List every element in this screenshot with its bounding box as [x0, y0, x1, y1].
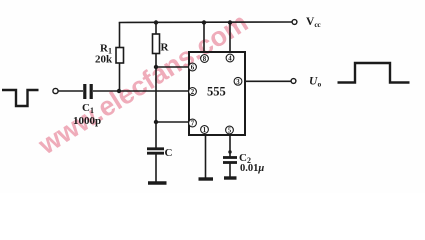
svg-text:6: 6: [191, 65, 195, 72]
svg-text:o: o: [318, 80, 322, 89]
ground (C): [148, 181, 167, 184]
junction dot R/pin7: [154, 120, 158, 124]
svg-text:20k: 20k: [95, 54, 113, 66]
capacitor C lower lead: [155, 153, 157, 182]
node A junction dot (C1/R1/pin2): [117, 89, 121, 93]
Vcc rail wire: [119, 21, 292, 24]
pin 1: [201, 126, 209, 134]
watermark www.elecfans.com: [32, 7, 253, 160]
svg-text:1000p: 1000p: [73, 115, 101, 127]
pin 8: [201, 55, 209, 63]
input trigger waveform (negative pulse): [2, 90, 39, 106]
svg-text:8: 8: [203, 56, 207, 63]
op-amp / 555 IC U1 box: [189, 52, 245, 135]
resistor R upper lead: [155, 23, 157, 35]
output terminal: [291, 79, 296, 84]
wire C1 to node A: [93, 90, 119, 92]
resistor R1 leads: [119, 63, 121, 91]
wire terminal to C1: [58, 90, 83, 92]
svg-text:R: R: [161, 42, 170, 54]
svg-text:4: 4: [228, 56, 232, 63]
output waveform (positive pulse): [338, 63, 410, 83]
svg-text:3: 3: [236, 79, 240, 86]
svg-text:1: 1: [203, 127, 207, 134]
svg-text:C: C: [165, 147, 173, 159]
input terminal: [53, 88, 58, 93]
junction dot rail/R: [154, 20, 158, 24]
junction dot R/pin6: [154, 65, 158, 69]
wire rail to pin 4: [229, 23, 231, 53]
junction blob on C2 lead: [228, 150, 231, 153]
ground (C2): [224, 176, 237, 179]
resistor R body: [153, 34, 160, 54]
svg-text:2: 2: [191, 89, 195, 96]
wire pin 5 to C2: [229, 135, 231, 157]
pin 6: [189, 63, 197, 71]
Vcc terminal: [292, 20, 297, 25]
pin 7: [189, 119, 197, 127]
junction dot rail/pin8: [202, 20, 206, 24]
wire to pin 7: [156, 121, 189, 123]
svg-text:0.01μ: 0.01μ: [240, 163, 264, 174]
svg-text:Vcc: Vcc: [306, 16, 321, 29]
capacitor C2 plates: [223, 158, 237, 163]
wire pin 3 to output terminal: [245, 80, 291, 82]
resistor R1 body: [116, 48, 124, 64]
ground (pin 1): [199, 177, 214, 180]
svg-text:5: 5: [228, 128, 232, 135]
pin 4: [226, 54, 234, 62]
capacitor C plates: [147, 149, 164, 153]
wire node A to pin 2: [119, 90, 189, 92]
svg-text:7: 7: [191, 121, 195, 128]
capacitor C2 lower lead: [229, 163, 231, 178]
pin 5: [226, 126, 234, 134]
junction dot rail/pin4: [228, 20, 232, 24]
resistor R lower lead down to capacitor C: [155, 54, 157, 148]
capacitor C1: [85, 84, 91, 99]
pin 2: [189, 88, 197, 96]
svg-text:555: 555: [207, 85, 226, 99]
wire rail to pin 8: [203, 23, 205, 53]
pin 3: [234, 77, 242, 85]
wire pin 1 to ground: [205, 135, 207, 179]
wire to pin 6: [156, 66, 189, 68]
